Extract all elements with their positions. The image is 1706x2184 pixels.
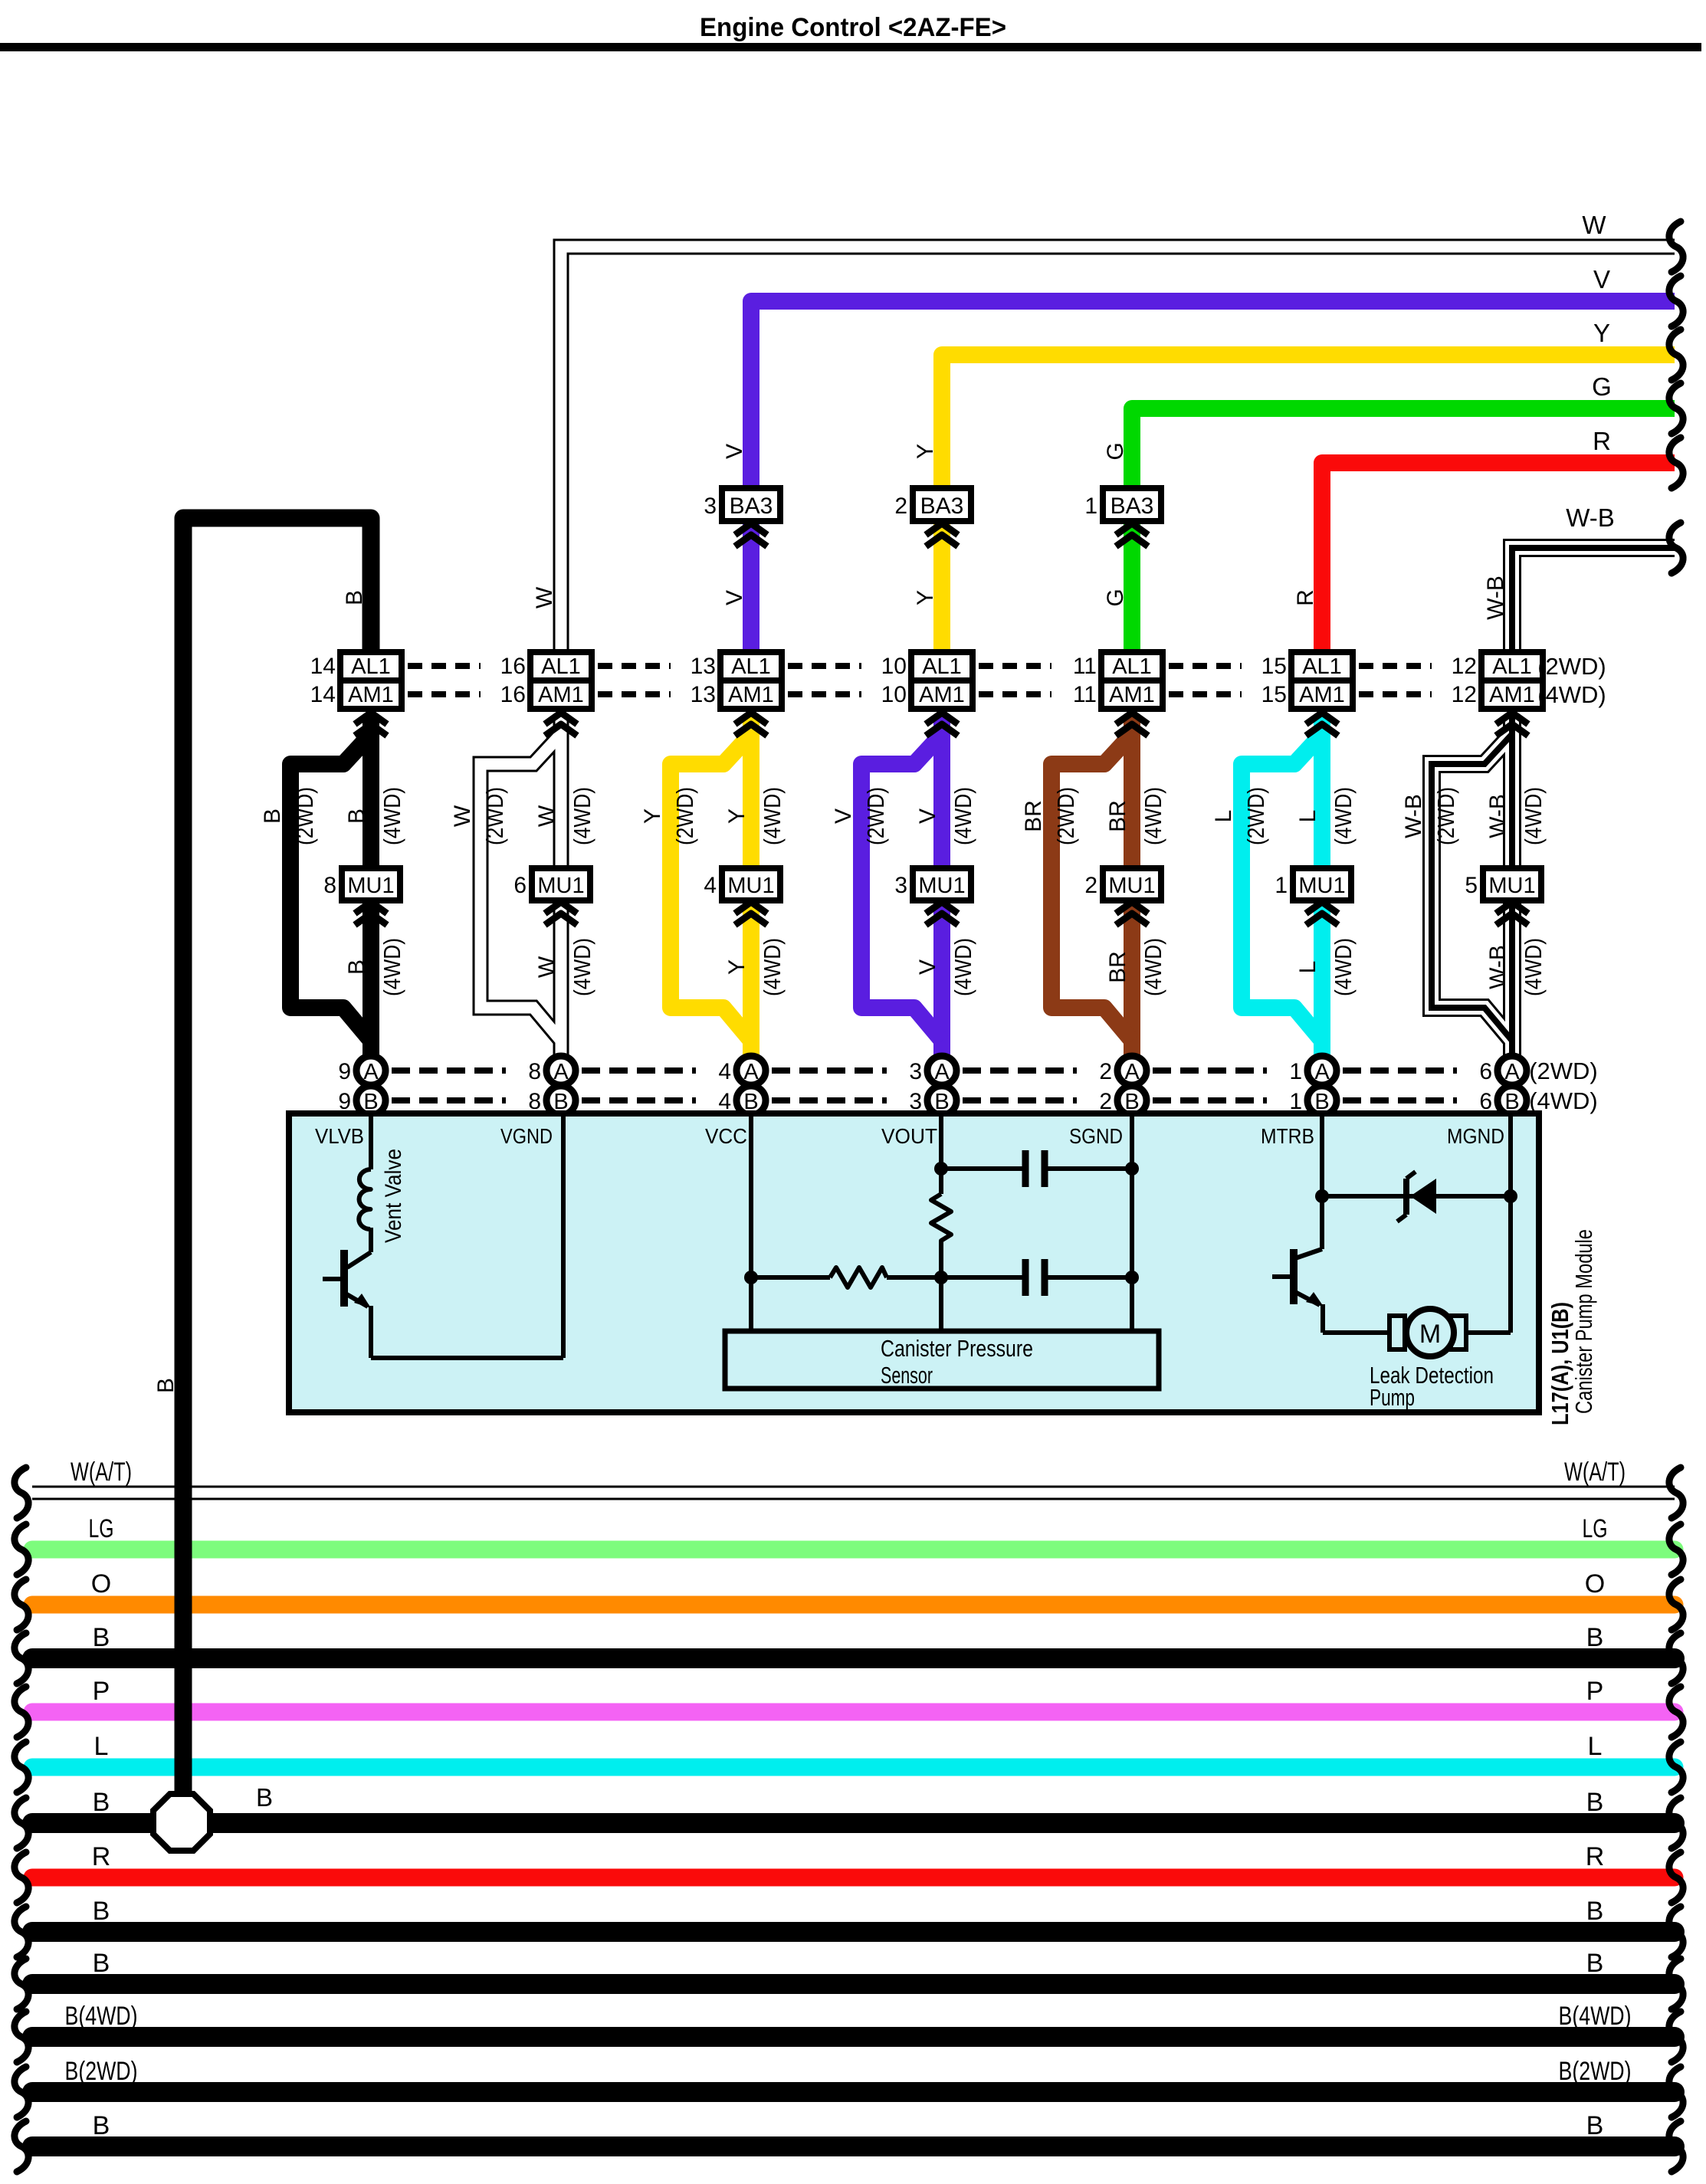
svg-text:W: W [1582,211,1606,239]
svg-text:W(A/T): W(A/T) [71,1458,132,1487]
svg-text:(2WD): (2WD) [1432,787,1459,845]
svg-text:AM1: AM1 [1299,683,1345,707]
svg-text:12: 12 [1452,654,1477,679]
svg-text:L: L [1295,810,1321,823]
svg-text:9: 9 [338,1059,351,1084]
svg-text:B: B [342,590,367,605]
svg-text:MU1: MU1 [1298,874,1345,898]
svg-text:11: 11 [1073,654,1097,679]
svg-text:O: O [1585,1569,1605,1599]
svg-text:Y: Y [640,808,665,824]
svg-text:AM1: AM1 [728,683,774,707]
svg-text:16: 16 [500,682,526,707]
svg-text:4: 4 [704,873,717,898]
svg-text:B: B [93,2111,110,2140]
svg-text:14: 14 [310,654,336,679]
svg-text:AM1: AM1 [919,683,965,707]
svg-text:W: W [532,586,557,608]
svg-text:2: 2 [1099,1059,1112,1084]
svg-text:(2WD): (2WD) [481,787,508,845]
svg-text:A: A [363,1060,379,1084]
svg-text:A: A [1314,1060,1330,1084]
svg-text:BR: BR [1021,800,1046,832]
svg-text:(2WD): (2WD) [1537,653,1606,680]
svg-text:MTRB: MTRB [1261,1124,1314,1148]
svg-text:B: B [1586,1897,1604,1926]
svg-text:Canister Pump Module: Canister Pump Module [1570,1229,1597,1414]
svg-text:(4WD): (4WD) [759,938,786,996]
svg-text:V: V [831,808,856,824]
svg-text:MU1: MU1 [347,874,394,898]
svg-text:(4WD): (4WD) [1520,938,1547,996]
svg-text:AM1: AM1 [1109,683,1155,707]
svg-text:MU1: MU1 [727,874,774,898]
svg-text:(4WD): (4WD) [1140,787,1166,845]
svg-text:V: V [722,590,747,605]
svg-text:(4WD): (4WD) [569,787,595,845]
svg-text:B: B [1586,2111,1604,2140]
svg-text:B: B [260,808,285,824]
svg-text:Y: Y [913,590,938,605]
svg-text:Pump: Pump [1370,1384,1415,1411]
svg-text:(2WD): (2WD) [862,787,889,845]
svg-text:B: B [344,808,369,824]
svg-text:2: 2 [894,494,907,519]
svg-text:12: 12 [1452,682,1477,707]
svg-text:10: 10 [881,654,907,679]
svg-text:A: A [743,1060,759,1084]
svg-text:B(4WD): B(4WD) [1559,2002,1632,2031]
svg-text:M: M [1419,1320,1441,1349]
svg-text:5: 5 [1465,873,1478,898]
svg-text:(4WD): (4WD) [1140,938,1166,996]
svg-text:W(A/T): W(A/T) [1564,1458,1626,1487]
svg-text:15: 15 [1261,654,1287,679]
svg-text:4: 4 [718,1059,731,1084]
svg-text:AM1: AM1 [348,683,394,707]
svg-text:B: B [1586,1949,1604,1978]
svg-text:G: G [1103,442,1128,460]
svg-text:V: V [1593,265,1610,293]
svg-text:BA3: BA3 [920,494,964,519]
svg-text:LG: LG [1583,1514,1608,1543]
svg-text:AL1: AL1 [731,654,771,679]
svg-text:B: B [93,1949,110,1978]
svg-text:AL1: AL1 [541,654,581,679]
svg-text:VGND: VGND [500,1124,553,1148]
svg-text:MU1: MU1 [537,874,584,898]
svg-text:(4WD): (4WD) [379,787,405,845]
svg-text:VLVB: VLVB [315,1124,364,1148]
svg-text:A: A [1504,1060,1520,1084]
svg-text:B: B [256,1783,273,1812]
svg-text:MU1: MU1 [1108,874,1155,898]
svg-text:11: 11 [1073,682,1097,707]
svg-text:G: G [1103,589,1128,606]
svg-text:(4WD): (4WD) [1537,681,1606,708]
svg-text:P: P [93,1677,110,1706]
svg-text:L: L [94,1732,109,1761]
svg-text:AL1: AL1 [1302,654,1342,679]
svg-text:Y: Y [1593,319,1610,347]
svg-text:L: L [1295,961,1321,974]
svg-text:8: 8 [323,873,336,898]
svg-text:L17(A), U1(B): L17(A), U1(B) [1547,1302,1573,1425]
svg-text:V: V [722,444,747,459]
svg-text:(2WD): (2WD) [1242,787,1269,845]
svg-text:B: B [153,1378,179,1393]
svg-text:AL1: AL1 [922,654,962,679]
svg-text:1: 1 [1275,873,1288,898]
svg-text:3: 3 [894,873,907,898]
svg-text:W-B: W-B [1485,945,1511,989]
svg-text:B(4WD): B(4WD) [65,2002,138,2031]
svg-text:(4WD): (4WD) [759,787,786,845]
svg-text:R: R [92,1842,111,1871]
svg-text:W: W [534,956,559,978]
svg-text:V: V [915,959,940,975]
svg-text:R: R [1586,1842,1605,1871]
svg-text:L: L [1588,1732,1603,1761]
svg-text:W-B: W-B [1566,503,1615,532]
svg-text:3: 3 [704,494,717,519]
svg-text:O: O [91,1569,111,1599]
svg-text:V: V [915,808,940,824]
svg-text:BR: BR [1105,951,1130,983]
svg-text:VOUT: VOUT [881,1124,937,1148]
svg-text:8: 8 [528,1059,541,1084]
svg-text:Y: Y [724,808,750,824]
svg-text:A: A [934,1060,950,1084]
svg-text:13: 13 [691,682,716,707]
svg-text:AL1: AL1 [1492,654,1532,679]
svg-text:BA3: BA3 [1111,494,1154,519]
svg-text:Canister Pressure: Canister Pressure [881,1335,1033,1362]
svg-text:B: B [344,959,369,975]
svg-text:13: 13 [691,654,716,679]
svg-text:AL1: AL1 [1112,654,1152,679]
svg-text:(2WD): (2WD) [1052,787,1079,845]
svg-text:MGND: MGND [1447,1124,1504,1148]
svg-text:SGND: SGND [1069,1124,1123,1148]
svg-text:Engine Control <2AZ-FE>: Engine Control <2AZ-FE> [700,13,1006,42]
svg-text:(2WD): (2WD) [291,787,318,845]
svg-text:(4WD): (4WD) [1520,787,1547,845]
svg-text:3: 3 [909,1059,922,1084]
svg-text:BA3: BA3 [730,494,773,519]
svg-text:L: L [1211,810,1236,823]
svg-text:(4WD): (4WD) [1330,938,1357,996]
svg-text:Sensor: Sensor [881,1362,933,1389]
svg-text:B: B [93,1897,110,1926]
svg-text:(4WD): (4WD) [379,938,405,996]
svg-text:A: A [553,1060,569,1084]
svg-text:B: B [93,1788,110,1817]
svg-text:15: 15 [1261,682,1287,707]
svg-text:(4WD): (4WD) [1330,787,1357,845]
svg-text:R: R [1593,427,1611,455]
svg-text:MU1: MU1 [1488,874,1535,898]
svg-text:W: W [450,805,475,827]
svg-text:14: 14 [310,682,336,707]
svg-text:B: B [1586,1623,1604,1652]
svg-text:1: 1 [1289,1059,1302,1084]
svg-text:G: G [1592,372,1612,401]
svg-text:10: 10 [881,682,907,707]
svg-text:B(2WD): B(2WD) [65,2057,138,2086]
svg-text:R: R [1293,589,1318,606]
svg-text:AL1: AL1 [351,654,391,679]
svg-text:6: 6 [513,873,527,898]
svg-text:Y: Y [724,959,750,975]
svg-text:AM1: AM1 [538,683,584,707]
svg-text:B: B [1586,1788,1604,1817]
svg-text:W-B: W-B [1401,794,1426,838]
svg-text:B: B [93,1623,110,1652]
svg-text:16: 16 [500,654,526,679]
svg-text:(2WD): (2WD) [671,787,698,845]
svg-text:(4WD): (4WD) [950,938,976,996]
svg-text:Y: Y [913,444,938,459]
svg-text:1: 1 [1084,494,1097,519]
svg-text:W: W [534,805,559,827]
svg-text:Vent Valve: Vent Valve [381,1149,406,1243]
svg-text:(4WD): (4WD) [950,787,976,845]
svg-text:A: A [1124,1060,1140,1084]
svg-text:B(2WD): B(2WD) [1559,2057,1632,2086]
svg-text:W-B: W-B [1483,576,1508,620]
svg-text:6: 6 [1479,1059,1492,1084]
svg-text:VCC: VCC [705,1124,747,1148]
svg-text:LG: LG [89,1514,114,1543]
svg-text:W-B: W-B [1485,794,1511,838]
svg-text:2: 2 [1084,873,1097,898]
svg-text:AM1: AM1 [1489,683,1535,707]
svg-text:(2WD): (2WD) [1529,1058,1598,1084]
svg-text:P: P [1586,1677,1604,1706]
svg-text:MU1: MU1 [918,874,965,898]
svg-text:(4WD): (4WD) [569,938,595,996]
svg-text:(4WD): (4WD) [1529,1087,1598,1114]
svg-text:BR: BR [1105,800,1130,832]
